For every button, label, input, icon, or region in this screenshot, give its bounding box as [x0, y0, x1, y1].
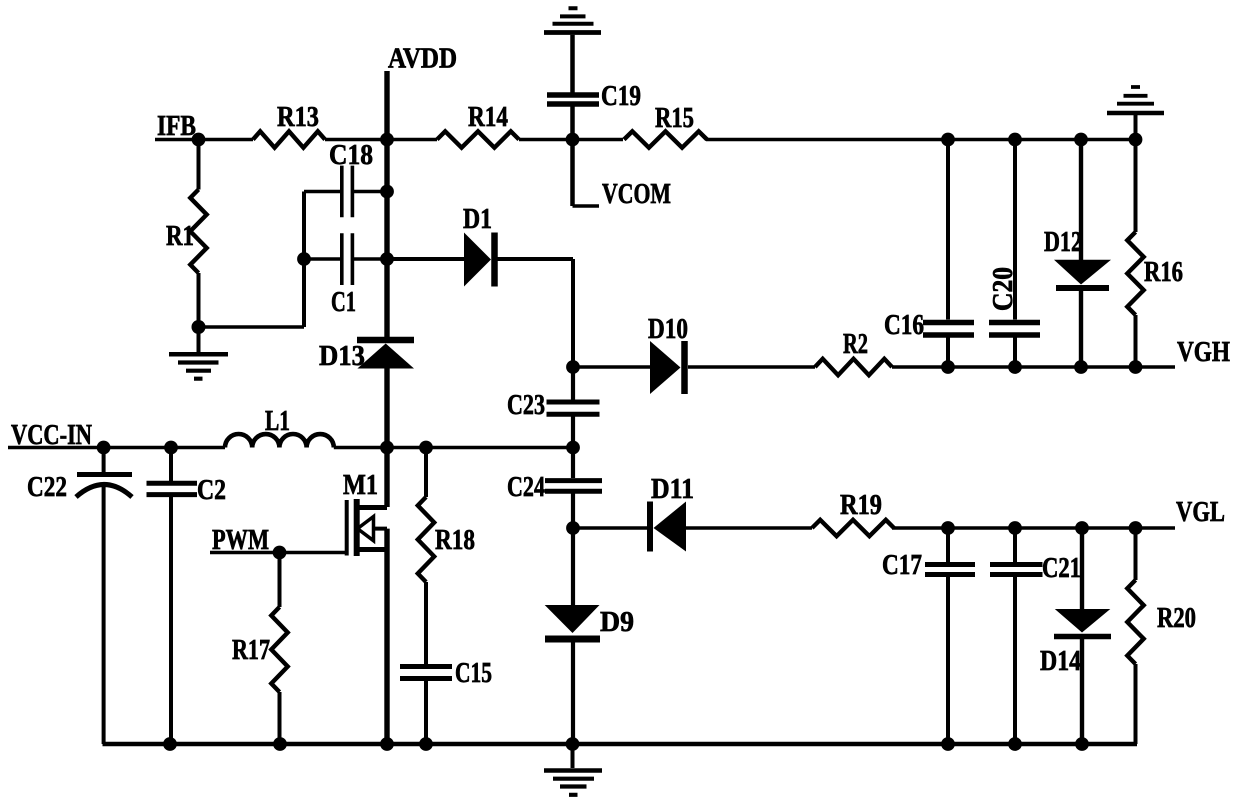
- svg-text:D11: D11: [651, 474, 694, 505]
- wire D1 anode lead: [387, 257, 464, 261]
- wire R14 to C19 node: [519, 138, 623, 142]
- node C19 junction: [566, 133, 580, 147]
- svg-text:C18: C18: [329, 140, 373, 171]
- wire C1 right lead: [354, 257, 387, 261]
- node VCOM stub: [573, 204, 600, 208]
- svg-text:C23: C23: [507, 390, 545, 421]
- wire bottom rail: [103, 742, 1138, 747]
- wire D11 to R19: [686, 526, 812, 530]
- node C20 bottom junction: [1008, 360, 1022, 374]
- wire R20 bottom lead: [1134, 664, 1138, 744]
- wire L1 to center column: [334, 446, 573, 450]
- capacitor C17: [925, 565, 975, 575]
- wire vertical C18/C1 left column: [302, 192, 306, 328]
- wire R20 top lead: [1134, 528, 1138, 580]
- svg-text:C24: C24: [507, 472, 545, 503]
- resistor R1: [190, 190, 206, 274]
- wire R1 top lead: [197, 140, 201, 190]
- wire R1 bottom lead: [197, 273, 201, 327]
- node R18 top junction: [419, 441, 433, 455]
- ground (bottom center): [544, 745, 602, 795]
- capacitor C18: [342, 166, 353, 218]
- svg-text:VCOM: VCOM: [602, 179, 671, 210]
- wire D11 cathode lead: [573, 526, 650, 530]
- wire C20 top lead: [1013, 140, 1017, 320]
- node D14 top junction: [1075, 521, 1089, 535]
- node R16 top junction: [1129, 133, 1143, 147]
- svg-text:L1: L1: [265, 406, 290, 437]
- node D12 bottom junction: [1074, 360, 1088, 374]
- wire R1 node to C1 column: [199, 325, 305, 329]
- wire center column C23 top: [571, 367, 575, 400]
- svg-text:IFB: IFB: [157, 111, 196, 142]
- wire C18 left lead: [304, 190, 340, 194]
- node C2 junction: [164, 441, 178, 455]
- diode D12: [1054, 260, 1111, 288]
- SECTION: top rail: [155, 8, 1136, 206]
- capacitor C22 (polarized): [76, 475, 132, 745]
- node PWM junction: [273, 546, 287, 560]
- node C1 right junction: [380, 252, 394, 266]
- capacitor C15: [400, 667, 452, 679]
- resistor R17: [271, 607, 287, 692]
- svg-text:R13: R13: [277, 102, 319, 133]
- svg-text:R14: R14: [468, 102, 508, 133]
- svg-text:R19: R19: [840, 490, 882, 521]
- node D12 top junction: [1074, 133, 1088, 147]
- wire C18 right lead: [354, 190, 387, 194]
- node R16 bottom junction: [1129, 360, 1143, 374]
- SECTION: nodes: [97, 133, 1143, 751]
- wire R18 top lead: [424, 448, 428, 498]
- wire AVDD rail to drain: [384, 368, 389, 507]
- diode D14: [1054, 609, 1111, 637]
- wire C17 bottom lead: [946, 577, 950, 744]
- wire C21 bottom lead: [1013, 577, 1017, 744]
- svg-text:M1: M1: [343, 470, 378, 501]
- svg-text:R1: R1: [166, 221, 194, 252]
- SECTION: right-top: [573, 87, 1175, 394]
- resistor R13: [253, 131, 325, 147]
- capacitor C23: [547, 402, 600, 414]
- wire R16 bottom lead: [1134, 315, 1138, 367]
- wire C1 left lead: [304, 257, 340, 261]
- wire C15 bottom lead: [424, 681, 428, 744]
- node C17 bottom junction: [941, 737, 955, 751]
- svg-text:VCC-IN: VCC-IN: [11, 420, 92, 451]
- node D14 bottom junction: [1075, 737, 1089, 751]
- wire D10 to R2: [688, 365, 815, 369]
- svg-text:C1: C1: [331, 287, 356, 318]
- wire C16 bottom lead: [946, 337, 950, 367]
- wire C2 top lead: [169, 448, 173, 482]
- wire C17 top lead: [946, 528, 950, 562]
- resistor R14: [437, 131, 519, 147]
- svg-text:C19: C19: [601, 81, 641, 112]
- node C17 top junction: [941, 521, 955, 535]
- svg-text:R15: R15: [655, 103, 694, 134]
- wire C24 to VGL rail: [571, 494, 575, 606]
- resistor R19: [812, 520, 894, 536]
- wire C16 top lead: [946, 140, 950, 320]
- wire R18 to C15: [424, 582, 428, 664]
- ground top (above C19): [544, 8, 601, 92]
- wire VGL rail: [892, 526, 1175, 530]
- diode D10: [650, 341, 685, 394]
- wire D14 top lead: [1080, 528, 1084, 610]
- node C18 right junction: [380, 185, 394, 199]
- svg-text:R20: R20: [1157, 603, 1196, 634]
- SECTION: left: [169, 71, 573, 507]
- svg-text:C22: C22: [27, 472, 67, 503]
- resistor R18: [418, 497, 434, 582]
- wire R13 to AVDD node: [325, 138, 437, 142]
- capacitor C20: [989, 323, 1040, 336]
- svg-text:R16: R16: [1144, 257, 1183, 288]
- SECTION: right-bottom: [573, 502, 1175, 745]
- wire R17 bottom lead: [278, 692, 282, 744]
- svg-text:VGH: VGH: [1177, 337, 1230, 368]
- node C24 VGL junction: [566, 521, 580, 535]
- node C20 top junction: [1008, 133, 1022, 147]
- svg-text:C17: C17: [882, 550, 922, 581]
- wire C20 bottom lead: [1013, 337, 1017, 367]
- svg-text:D14: D14: [1040, 646, 1081, 677]
- node C1 left junction: [297, 252, 311, 266]
- svg-text:D9: D9: [600, 607, 634, 638]
- wire R16 top lead: [1134, 140, 1138, 233]
- capacitor C24: [545, 481, 602, 492]
- svg-text:D13: D13: [319, 341, 365, 372]
- node C22 junction: [97, 441, 111, 455]
- SECTION: center: [8, 367, 1137, 795]
- svg-text:R18: R18: [435, 525, 475, 556]
- capacitor C21: [990, 565, 1043, 575]
- node R20 top junction: [1129, 521, 1143, 535]
- svg-text:C2: C2: [197, 475, 226, 506]
- node AVDD top-rail junction: [380, 133, 394, 147]
- svg-text:C21: C21: [1042, 553, 1081, 584]
- wire C2 bottom lead: [169, 497, 173, 744]
- wire PWM lead-in: [210, 551, 345, 554]
- wire D12 bottom lead: [1079, 291, 1083, 367]
- resistor R2: [815, 359, 892, 375]
- wire M1 source/body to bottom rail: [384, 529, 389, 744]
- wire D12 top lead: [1079, 140, 1083, 262]
- node IFB junction: [192, 133, 206, 147]
- wire C21 top lead: [1013, 528, 1017, 562]
- ground (top right): [1107, 87, 1164, 140]
- svg-text:R2: R2: [843, 329, 868, 360]
- node C16 top junction: [941, 133, 955, 147]
- wire R15 to right columns: [706, 138, 1136, 142]
- transistor M1: [347, 499, 387, 556]
- svg-text:D12: D12: [1044, 227, 1082, 258]
- svg-text:D10: D10: [648, 314, 688, 345]
- wire D1 cathode to corner: [498, 259, 574, 367]
- node C23/C24 junction: [566, 441, 580, 455]
- wire VGH rail: [892, 365, 1175, 369]
- node R17 bottom junction: [273, 737, 287, 751]
- capacitor C19: [547, 95, 599, 206]
- capacitor C16: [923, 323, 974, 336]
- node C21 top junction: [1008, 521, 1022, 535]
- wire R17 top lead: [278, 553, 282, 608]
- resistor R15: [624, 131, 707, 147]
- svg-text:VGL: VGL: [1176, 497, 1225, 528]
- wire D9 to bottom rail: [571, 643, 575, 745]
- ground (below R1): [169, 329, 228, 379]
- node R1 bottom junction: [192, 320, 206, 334]
- capacitor C1: [342, 233, 353, 285]
- wire C23 to VCC rail: [571, 417, 575, 479]
- diode D1: [464, 233, 495, 287]
- svg-text:PWM: PWM: [212, 525, 269, 556]
- node switch junction: [380, 441, 394, 455]
- node C2 bottom junction: [163, 737, 177, 751]
- inductor L1: [225, 434, 334, 448]
- wire C22 top lead: [102, 448, 106, 473]
- node M1 source bottom junction: [380, 737, 394, 751]
- SECTION: labels: [11, 44, 1230, 690]
- node C16 bottom junction: [941, 360, 955, 374]
- wire D10 anode lead: [573, 365, 650, 369]
- svg-text:C16: C16: [884, 310, 924, 341]
- svg-text:D1: D1: [463, 204, 492, 235]
- node ground junction: [566, 737, 580, 751]
- svg-text:C20: C20: [988, 267, 1019, 311]
- svg-text:R17: R17: [232, 635, 270, 666]
- wire IFB lead-in: [155, 138, 253, 142]
- diode D11: [650, 502, 686, 552]
- resistor R20: [1127, 580, 1143, 664]
- wire VCC-IN lead-in: [8, 446, 225, 450]
- diode D9: [545, 605, 600, 639]
- diode D13: [357, 340, 414, 369]
- svg-text:AVDD: AVDD: [388, 44, 457, 75]
- node charge-pump VGH junction: [566, 360, 580, 374]
- wire D14 bottom lead: [1080, 639, 1084, 744]
- resistor R16: [1127, 232, 1143, 315]
- node C15 bottom junction: [419, 737, 433, 751]
- svg-text:C15: C15: [455, 658, 492, 689]
- capacitor C2: [147, 483, 198, 494]
- wire AVDD rail upper: [384, 71, 389, 337]
- node C21 bottom junction: [1008, 737, 1022, 751]
